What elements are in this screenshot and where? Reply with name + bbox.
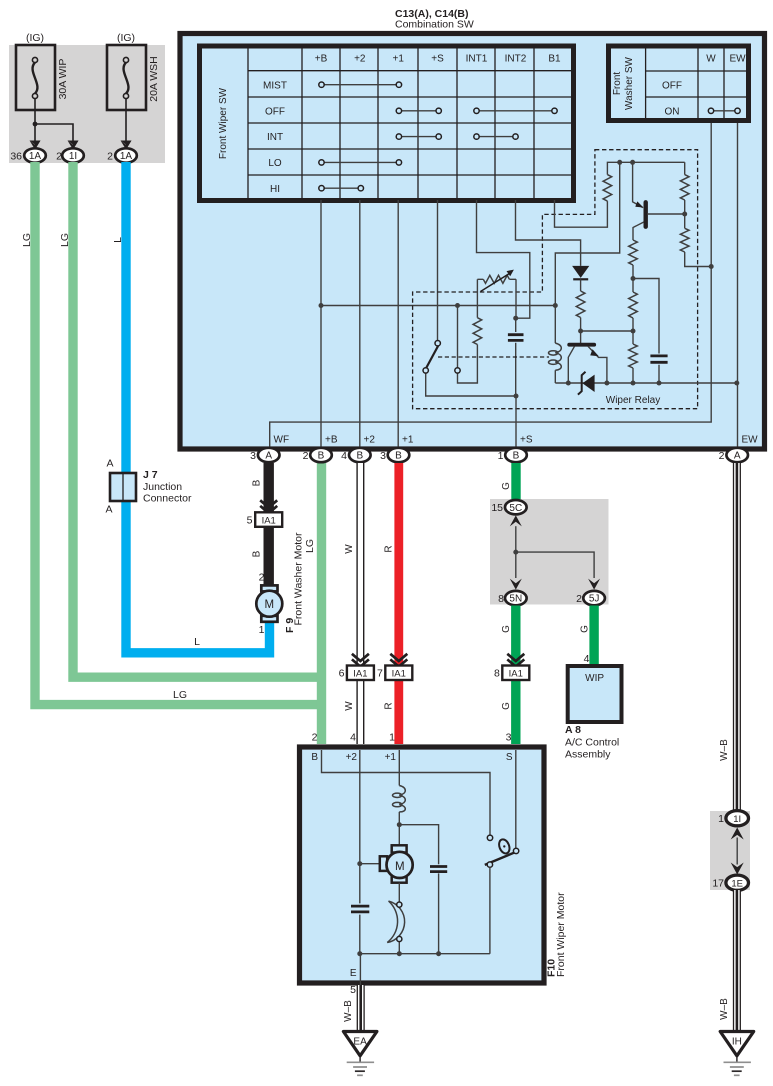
relay switch SW1 xyxy=(423,341,516,397)
wire W-B from E to ground xyxy=(357,985,364,1032)
arrow into connector 1A(WSH) xyxy=(121,141,132,150)
svg-text:B: B xyxy=(311,752,318,763)
svg-text:1: 1 xyxy=(498,450,504,462)
svg-text:W: W xyxy=(344,701,355,711)
svg-text:B: B xyxy=(318,451,325,462)
connector 1I pin 2 xyxy=(56,148,84,162)
svg-text:1I: 1I xyxy=(69,151,77,162)
gray panel 1I/1E xyxy=(710,811,750,890)
svg-text:30A WIP: 30A WIP xyxy=(57,59,69,100)
svg-text:M: M xyxy=(395,861,405,873)
svg-text:J 7: J 7 xyxy=(143,469,158,481)
wire fuse WIP to connectors xyxy=(33,99,73,142)
svg-text:20A WSH: 20A WSH xyxy=(148,56,160,102)
svg-text:W: W xyxy=(344,544,355,554)
wire branch to 5J xyxy=(516,552,594,578)
connector IA1 pin 8 xyxy=(494,666,529,681)
A/C control assembly A8 xyxy=(568,653,622,722)
arrow into IA1 pin5 xyxy=(260,500,277,507)
relay coil L1 xyxy=(549,306,562,384)
svg-text:LG: LG xyxy=(304,539,316,553)
fuse 20A WSH xyxy=(107,32,160,110)
svg-text:Junction: Junction xyxy=(143,481,182,493)
svg-text:A/C Control: A/C Control xyxy=(565,737,619,749)
connector IA1 pin 6 xyxy=(339,666,374,681)
F10 terminal labels xyxy=(311,752,513,979)
svg-text:INT1: INT1 xyxy=(466,54,488,65)
wire +2 internal xyxy=(359,750,361,954)
terminal labels strip xyxy=(274,435,759,446)
arrows into IA1 pins 6,7,8 xyxy=(352,654,369,661)
wire R red from +1 xyxy=(394,463,403,744)
wire +B feed to relay top xyxy=(555,162,619,305)
svg-text:LO: LO xyxy=(268,158,282,169)
svg-text:1: 1 xyxy=(389,732,395,744)
bottom rail of relay xyxy=(555,382,737,384)
svg-text:IA1: IA1 xyxy=(509,669,523,680)
svg-text:OFF: OFF xyxy=(662,81,682,92)
wire +S column to park switch xyxy=(437,200,439,340)
svg-text:Combination SW: Combination SW xyxy=(395,19,474,31)
svg-text:L: L xyxy=(112,237,124,243)
gray panel 5C/5N/5J xyxy=(490,499,609,605)
zener diode ZD1 xyxy=(578,372,595,395)
wire +1 internal xyxy=(398,750,400,845)
svg-text:+B: +B xyxy=(325,435,338,446)
svg-text:4: 4 xyxy=(341,450,347,462)
svg-text:B1: B1 xyxy=(548,54,561,65)
wire LG from fuse 1I to +B xyxy=(73,162,322,677)
svg-text:IA1: IA1 xyxy=(262,516,276,527)
svg-text:M: M xyxy=(265,599,275,611)
terminal +1 3(B) xyxy=(380,448,409,462)
svg-text:OFF: OFF xyxy=(265,106,285,117)
connector 1E pin 17 xyxy=(712,875,748,890)
capacitor C4 xyxy=(430,867,447,872)
wiper SW contacts MIST row xyxy=(319,82,402,87)
svg-text:+2: +2 xyxy=(364,435,376,446)
svg-text:(IG): (IG) xyxy=(26,32,44,44)
arrow down into 5J xyxy=(588,579,600,590)
wire L blue from fuse to washer motor xyxy=(126,162,270,653)
svg-text:IH: IH xyxy=(732,1037,742,1048)
transistor Q1 PNP xyxy=(630,160,687,240)
svg-text:W–B: W–B xyxy=(719,739,730,761)
svg-text:Front: Front xyxy=(612,72,623,96)
fuse 30A WIP xyxy=(16,32,69,110)
svg-text:2: 2 xyxy=(56,151,62,163)
svg-text:IA1: IA1 xyxy=(392,669,406,680)
variable resistor VR1 xyxy=(477,270,516,319)
svg-text:+S: +S xyxy=(520,435,533,446)
wiper SW contacts INT row xyxy=(396,134,518,139)
wire junction to 5N xyxy=(515,552,517,578)
svg-text:ON: ON xyxy=(665,106,680,117)
svg-text:2: 2 xyxy=(259,572,265,584)
wire INT1 to cap node xyxy=(477,200,530,318)
wiper SW contacts HI row xyxy=(319,186,364,191)
svg-text:1I: 1I xyxy=(733,814,741,825)
svg-text:5J: 5J xyxy=(589,594,600,605)
wire LG from fuse 1A to wiper motor B xyxy=(35,162,322,705)
svg-text:A: A xyxy=(106,458,113,470)
svg-text:WF: WF xyxy=(274,435,290,446)
front wiper motor box F10 xyxy=(300,747,545,983)
svg-text:A 8: A 8 xyxy=(565,724,581,736)
svg-text:HI: HI xyxy=(270,184,280,195)
wire +S terminal lead xyxy=(515,396,517,448)
wire W white from +2 xyxy=(357,463,364,744)
wire fuse WSH down xyxy=(125,99,127,142)
wire +1 column to terminal xyxy=(397,200,399,448)
svg-text:2: 2 xyxy=(107,151,113,163)
svg-text:(IG): (IG) xyxy=(117,32,135,44)
wire G from 5N to wiper motor S xyxy=(511,606,520,745)
wire B1 column to resistor R1 xyxy=(555,200,608,227)
svg-text:5: 5 xyxy=(350,984,356,996)
terminal +S 1(B) xyxy=(498,448,527,462)
wire LG +B down to wiper motor xyxy=(317,463,326,744)
svg-text:3: 3 xyxy=(250,450,256,462)
wire 5C to junction xyxy=(515,526,517,552)
svg-text:1: 1 xyxy=(259,624,265,636)
capacitor C3 (+2 line) xyxy=(351,906,369,912)
svg-text:EW: EW xyxy=(742,435,759,446)
svg-text:MIST: MIST xyxy=(263,81,287,92)
choke coil L2 xyxy=(399,786,405,812)
front wiper switch table xyxy=(200,46,574,201)
arrow into connector 1A xyxy=(30,141,41,150)
svg-text:Assembly: Assembly xyxy=(565,749,611,761)
svg-text:EA: EA xyxy=(353,1037,367,1048)
wire EW from washer SW to EW terminal xyxy=(737,123,739,448)
wire G green from +S xyxy=(511,463,520,500)
wire +B column to terminal xyxy=(320,200,322,448)
svg-text:+B: +B xyxy=(315,54,328,65)
arrow up into 1I xyxy=(731,828,744,840)
wire E lead xyxy=(359,954,361,985)
svg-text:B: B xyxy=(252,550,263,557)
connector 1A pin 2 (washer) xyxy=(107,148,137,162)
svg-text:1E: 1E xyxy=(731,878,743,889)
fuse panel gray background xyxy=(9,45,165,163)
svg-text:+2: +2 xyxy=(354,54,366,65)
wire B internal to park contact xyxy=(322,750,491,835)
wire +2 column to terminal xyxy=(359,200,361,448)
svg-text:Front Wiper SW: Front Wiper SW xyxy=(218,87,229,159)
wire W from washer SW to WF terminal xyxy=(270,123,712,448)
svg-text:G: G xyxy=(501,482,512,490)
svg-text:+S: +S xyxy=(431,54,444,65)
wire W-B from EW down xyxy=(734,463,741,811)
resistor R5 (left branch) xyxy=(476,279,478,317)
washer SW contacts ON row xyxy=(708,108,740,113)
arrow into connector 1I xyxy=(68,141,79,150)
svg-text:IA1: IA1 xyxy=(353,669,367,680)
svg-text:1A: 1A xyxy=(29,151,42,162)
svg-text:INT: INT xyxy=(267,132,283,143)
connector 1A pin 36 xyxy=(10,148,45,162)
terminal WF 3(A) xyxy=(250,448,279,462)
dashed mechanical linkage xyxy=(438,356,549,358)
wiper relay dashed outline xyxy=(413,150,698,409)
wire S internal xyxy=(515,750,517,848)
connector 5C pin 15 xyxy=(491,500,526,514)
svg-text:4: 4 xyxy=(350,732,356,744)
svg-text:R: R xyxy=(384,545,395,552)
svg-text:Washer SW: Washer SW xyxy=(624,56,635,110)
svg-text:3: 3 xyxy=(380,450,386,462)
svg-text:5: 5 xyxy=(247,515,253,527)
transistor Q2 NPN xyxy=(568,345,607,383)
svg-text:6: 6 xyxy=(339,668,345,680)
ground EA xyxy=(343,1032,377,1076)
wire G from 5J to A8 xyxy=(589,606,598,669)
svg-text:8: 8 xyxy=(494,668,500,680)
svg-text:Front Wiper Motor: Front Wiper Motor xyxy=(555,892,567,977)
relay fixed contact (from rail) xyxy=(455,306,460,374)
connector 5J pin 2 xyxy=(576,591,605,605)
svg-text:A: A xyxy=(265,451,272,462)
ground IH xyxy=(720,1032,754,1076)
svg-text:A: A xyxy=(734,451,741,462)
connector 1I pin 1 xyxy=(718,811,748,826)
svg-text:B: B xyxy=(395,451,402,462)
wire B black WF to washer motor xyxy=(264,463,274,586)
svg-text:S: S xyxy=(506,752,513,763)
svg-text:LG: LG xyxy=(59,233,71,247)
svg-text:4: 4 xyxy=(584,653,590,665)
terminal +B 2(B) xyxy=(303,448,332,462)
resistor R4 (below diode) xyxy=(580,279,582,291)
resistor R2 (top right) xyxy=(680,175,689,200)
svg-text:2: 2 xyxy=(312,732,318,744)
svg-text:G: G xyxy=(501,702,512,710)
svg-text:W–B: W–B xyxy=(719,998,730,1020)
wiper SW contacts OFF row xyxy=(396,108,557,113)
arrow down into 5N xyxy=(510,579,522,590)
combination switch box C13/C14 xyxy=(180,34,765,450)
connector IA1 pin 7 xyxy=(377,666,412,681)
wire lever to bottom rail xyxy=(360,867,490,953)
junction connector J7 xyxy=(105,458,191,516)
svg-text:Connector: Connector xyxy=(143,493,192,505)
svg-text:2: 2 xyxy=(576,593,582,605)
svg-text:1A: 1A xyxy=(120,151,133,162)
svg-text:2: 2 xyxy=(719,450,725,462)
svg-text:+1: +1 xyxy=(392,54,404,65)
diode D1 xyxy=(572,266,589,279)
svg-text:W: W xyxy=(706,54,716,65)
park switch lever xyxy=(485,848,519,867)
wire 1I to 1E xyxy=(736,838,738,865)
wire INT2 to diode xyxy=(516,200,581,266)
motor M F10 xyxy=(380,845,413,882)
front washer switch table xyxy=(609,46,749,121)
resistor R7 xyxy=(629,292,638,318)
svg-text:+1: +1 xyxy=(385,752,397,763)
svg-text:8: 8 xyxy=(498,593,504,605)
wiper SW contacts LO row xyxy=(319,160,402,165)
svg-text:A: A xyxy=(105,504,112,516)
resistor R8 xyxy=(629,344,638,368)
svg-text:3: 3 xyxy=(506,732,512,744)
svg-text:LG: LG xyxy=(173,689,187,701)
svg-text:Front Washer Motor: Front Washer Motor xyxy=(293,532,305,625)
svg-text:INT2: INT2 xyxy=(505,54,527,65)
svg-text:36: 36 xyxy=(10,151,22,163)
svg-text:G: G xyxy=(580,625,591,633)
svg-text:L: L xyxy=(194,636,200,648)
park cam ellipse xyxy=(497,838,511,855)
connector 5N pin 8 xyxy=(498,591,526,605)
svg-text:2: 2 xyxy=(303,450,309,462)
wire motor to bottom rail xyxy=(398,883,400,954)
terminal +2 4(B) xyxy=(341,448,370,462)
svg-text:+2: +2 xyxy=(346,752,358,763)
svg-text:B: B xyxy=(252,479,263,486)
svg-text:1: 1 xyxy=(718,813,724,825)
svg-text:Wiper Relay: Wiper Relay xyxy=(606,395,660,406)
terminal EW 2(A) xyxy=(719,448,748,462)
resistor R1 (left, below top rail) xyxy=(603,175,612,202)
capacitor C1 xyxy=(508,318,524,396)
connector IA1 pin 5 xyxy=(247,512,283,527)
washer motor F9 xyxy=(256,572,282,637)
resistor R3 (right, below base) xyxy=(680,228,689,252)
arrow up into 5C xyxy=(510,515,522,526)
capacitor C2 xyxy=(633,279,668,384)
svg-text:5C: 5C xyxy=(509,503,522,514)
svg-text:E: E xyxy=(350,968,357,979)
svg-text:B: B xyxy=(513,451,520,462)
svg-text:LG: LG xyxy=(21,233,33,247)
wire to capacitor C4 xyxy=(399,825,438,954)
main +B rail inside relay xyxy=(321,305,555,307)
wire base link xyxy=(581,330,633,332)
park cam crescent xyxy=(387,901,404,942)
top rail of relay xyxy=(607,162,684,174)
svg-text:7: 7 xyxy=(377,668,383,680)
resistor R6 chain middle xyxy=(629,240,638,265)
park contact open circle xyxy=(487,835,492,840)
svg-text:17: 17 xyxy=(712,878,724,890)
svg-text:G: G xyxy=(501,625,512,633)
svg-text:WIP: WIP xyxy=(585,673,604,684)
svg-text:EW: EW xyxy=(729,54,746,65)
svg-text:B: B xyxy=(356,451,363,462)
arrow down into 1E xyxy=(731,863,744,875)
svg-text:W–B: W–B xyxy=(343,1000,354,1022)
wire W-B 1E to ground xyxy=(734,890,741,1032)
svg-text:5N: 5N xyxy=(509,594,522,605)
svg-text:R: R xyxy=(384,702,395,709)
svg-text:+1: +1 xyxy=(402,435,414,446)
svg-text:15: 15 xyxy=(491,502,503,514)
